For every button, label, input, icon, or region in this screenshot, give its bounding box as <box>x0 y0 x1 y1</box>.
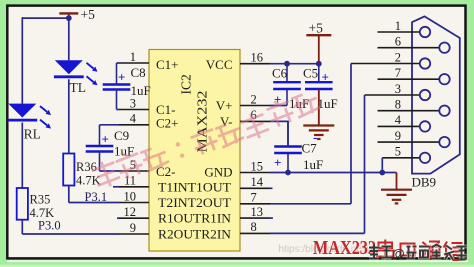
wire: TL branch vertical <box>68 18 70 60</box>
svg-text:C2+: C2+ <box>156 116 179 131</box>
wire: V- corner to C7 <box>287 121 289 147</box>
IC pin 9 wire <box>22 221 149 235</box>
svg-text:DB9: DB9 <box>412 175 437 190</box>
IC pin 12 wire <box>117 205 149 219</box>
svg-text:9: 9 <box>130 221 136 235</box>
node: VCC dots <box>284 61 290 67</box>
svg-text:12: 12 <box>124 205 137 219</box>
wire: R35 to P3.0 line <box>21 220 23 234</box>
svg-text:4: 4 <box>395 113 402 127</box>
svg-text:+: + <box>274 155 281 170</box>
svg-text:C8: C8 <box>131 65 146 80</box>
LED RL <box>7 104 51 142</box>
title 串口通信 (drawn glyphs, red) <box>377 240 463 261</box>
IC pin 1 wire <box>117 50 150 64</box>
IC pin 4 wire <box>100 112 150 126</box>
svg-text:5: 5 <box>395 145 401 159</box>
DB9 pin 5 <box>382 145 430 163</box>
DB9 pin 6 <box>378 35 450 53</box>
svg-text:C5: C5 <box>303 66 318 81</box>
resistor R35 <box>17 188 54 220</box>
C9 labels <box>102 128 135 159</box>
svg-text:V+: V+ <box>216 98 233 113</box>
IC pin 8 wire <box>240 220 365 234</box>
svg-text:VCC: VCC <box>206 57 233 72</box>
svg-text:+: + <box>102 132 109 147</box>
power +5 (right) <box>306 21 331 64</box>
svg-text:@: @ <box>392 246 405 261</box>
svg-text:R35: R35 <box>30 193 51 207</box>
C8 labels <box>118 65 151 98</box>
IC pin 14 wire <box>240 175 273 189</box>
IC pin 3 wire <box>117 96 150 110</box>
decorative: pink diagonal watermark (approximate glyphs) <box>90 90 321 190</box>
IC pin 11 wire <box>113 174 149 188</box>
capacitor C6 <box>273 64 301 106</box>
svg-text:2: 2 <box>251 92 257 106</box>
C7 labels <box>274 130 323 173</box>
svg-text:T2INT2OUT: T2INT2OUT <box>158 195 231 210</box>
svg-text:+5: +5 <box>309 21 324 36</box>
svg-text:R36: R36 <box>76 160 97 174</box>
DB9 pin 3 <box>365 82 431 100</box>
IC pin 2 wire <box>240 92 287 106</box>
svg-text:R1OUTR1IN: R1OUTR1IN <box>158 210 232 225</box>
ground (DB9) <box>381 173 412 204</box>
svg-text:R2OUTR2IN: R2OUTR2IN <box>158 226 232 241</box>
C5 labels <box>303 66 338 112</box>
svg-text:3: 3 <box>395 82 401 96</box>
wire: TL cathode to R36 <box>68 79 70 153</box>
node: +5 junction dot <box>66 15 72 21</box>
DB9 connector outline <box>412 16 460 173</box>
DB9 pin 8 <box>378 98 450 116</box>
svg-text:+: + <box>118 70 125 85</box>
DB9 pin 1 <box>378 19 431 37</box>
svg-text:4.7K: 4.7K <box>76 174 101 188</box>
svg-text:T1INT1OUT: T1INT1OUT <box>158 180 231 195</box>
node: C7/GND junction <box>285 170 291 176</box>
IC pin 6 wire <box>240 108 288 122</box>
IC pin 5 wire <box>100 158 150 172</box>
IC pin 13 wire <box>240 205 273 219</box>
wire: R36 to pin10 line <box>68 186 70 203</box>
svg-text:16: 16 <box>251 51 264 65</box>
svg-text:1: 1 <box>395 19 401 33</box>
power +5 (left) <box>59 7 95 22</box>
svg-text:6: 6 <box>395 35 401 49</box>
svg-text:3: 3 <box>130 96 136 110</box>
LED TL <box>54 60 98 95</box>
wire: R2IN to DB9-3 <box>364 95 366 233</box>
wire: +5 to RL branch (horizontal) <box>22 17 69 19</box>
IC pin 16 wire <box>240 51 319 65</box>
capacitor C8 <box>103 63 131 110</box>
svg-text:1uF: 1uF <box>318 96 338 111</box>
decorative: bottom-right watermark <box>369 245 467 260</box>
capacitor C7 <box>274 121 302 172</box>
wire: RL branch vertical <box>21 17 23 103</box>
op-amp/IC U: MAX232 IC2 body <box>149 50 240 252</box>
DB9 pin 7 <box>378 66 450 84</box>
IC pin 15 wire <box>240 159 397 173</box>
IC pin 10 wire <box>69 189 149 203</box>
wire: T2OUT to DB9-2 <box>350 64 352 204</box>
C6 labels <box>272 66 309 112</box>
svg-text:C1+: C1+ <box>156 57 179 72</box>
svg-text:1: 1 <box>130 50 136 64</box>
wire: RL cathode to R35 <box>21 123 23 189</box>
DB9 pin 2 <box>351 50 430 68</box>
svg-text:2: 2 <box>395 50 401 64</box>
svg-text:8: 8 <box>251 220 257 234</box>
IC pin 7 wire <box>240 191 351 205</box>
svg-text:+5: +5 <box>81 7 96 22</box>
svg-text:MAX232: MAX232 <box>313 237 376 259</box>
svg-text:IC2: IC2 <box>179 74 194 94</box>
svg-text:TL: TL <box>70 80 87 95</box>
wire: DB9-5 to GND net <box>381 158 383 173</box>
svg-text:7: 7 <box>395 66 401 80</box>
svg-text:11: 11 <box>124 174 136 188</box>
ground (C5) <box>303 89 334 139</box>
svg-text:4: 4 <box>130 112 137 126</box>
svg-text:C6: C6 <box>272 66 288 81</box>
svg-text:13: 13 <box>251 205 264 219</box>
svg-text:+: + <box>322 70 329 85</box>
svg-text:15: 15 <box>251 159 264 173</box>
svg-text:GND: GND <box>204 165 232 180</box>
DB9 pin 9 <box>378 129 450 147</box>
svg-text:8: 8 <box>395 98 401 112</box>
svg-text:1uF: 1uF <box>303 157 323 172</box>
capacitor C5 <box>305 64 333 126</box>
light strip under bottom frame <box>7 260 468 262</box>
svg-text:C7: C7 <box>302 141 318 156</box>
svg-text:9: 9 <box>395 129 401 143</box>
DB9 pin 4 <box>378 113 431 131</box>
svg-text:P3.0: P3.0 <box>38 219 61 233</box>
node: DB9-5/GND junction <box>379 170 385 176</box>
svg-text:7: 7 <box>251 191 257 205</box>
resistor R36 <box>63 154 100 188</box>
capacitor C9 <box>86 125 114 171</box>
svg-text:10: 10 <box>124 189 137 203</box>
svg-text:C9: C9 <box>114 128 129 143</box>
svg-text:RL: RL <box>24 127 41 142</box>
svg-text:14: 14 <box>251 175 264 189</box>
svg-text:1uF: 1uF <box>131 83 151 98</box>
